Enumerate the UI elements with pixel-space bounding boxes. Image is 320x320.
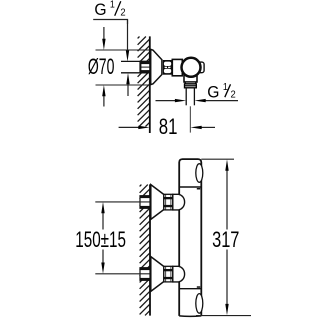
bottom cap highlight ellipse <box>196 294 203 314</box>
wall hatching (front view) <box>140 185 150 316</box>
outlet centerline extension <box>189 106 191 132</box>
dimension 81: right arrow + tail <box>200 126 215 128</box>
wall face line (top view) <box>149 36 151 133</box>
dimension 317 extension line bottom <box>196 315 251 317</box>
lower union nut <box>164 266 173 282</box>
safestop tick top <box>197 188 200 190</box>
top cap highlight ellipse <box>196 164 203 183</box>
outlet step <box>185 82 196 84</box>
valve body (circle) <box>182 58 201 77</box>
outlet pipe G1/2 <box>185 88 187 106</box>
dimension 317 line + arrows <box>226 168 228 230</box>
mixer body (front view) <box>179 159 201 316</box>
supply pipe white mask <box>121 61 150 72</box>
escutcheon (top view, side profile) <box>151 49 162 84</box>
upper escutcheon (front view) <box>151 185 164 220</box>
Ø70 arrow down <box>103 27 105 42</box>
wall hatching (top view) <box>138 37 150 127</box>
dimension 150±15 extension line top <box>95 201 149 203</box>
dimension 81: left tail + arrow to wall <box>119 126 140 128</box>
outlet dim line right + arrow (underline of G1/2) <box>204 100 238 102</box>
dimension 150±15 line + arrows <box>102 210 104 230</box>
cylinder section before valve body <box>172 59 182 75</box>
leader underline G1/2 top-left <box>93 20 127 25</box>
svg-text:317: 317 <box>212 228 239 253</box>
svg-text:Ø70: Ø70 <box>88 54 114 79</box>
upper union nut <box>164 194 173 210</box>
label G1/2 at outlet <box>207 82 236 102</box>
svg-text:G: G <box>207 83 219 101</box>
svg-text:81: 81 <box>159 115 178 140</box>
outlet dim line left + arrow <box>156 100 177 102</box>
wall face line (front view) <box>149 184 151 315</box>
svg-text:150±15: 150±15 <box>75 229 126 253</box>
top cap separation line <box>179 186 201 188</box>
svg-text:2: 2 <box>120 7 126 19</box>
safestop tick bottom <box>197 286 200 288</box>
bottom cap separation line <box>179 288 201 290</box>
dimension 317 extension line top <box>201 158 234 160</box>
outlet nut <box>185 84 197 88</box>
upper inlet boss on body <box>173 194 185 210</box>
arrow up to pipe bottom (G1/2) <box>127 81 129 96</box>
leader arrow down to pipe top (G1/2) <box>127 20 129 54</box>
dimension Ø70 extension line top <box>96 49 150 51</box>
body bottom edge <box>179 315 201 317</box>
svg-text:1: 1 <box>110 0 115 11</box>
outlet neck under valve body <box>184 70 197 82</box>
connection nipple thread (black with white grooves) <box>163 60 173 75</box>
label G1/2 top-left <box>94 0 126 19</box>
dimension Ø70 extension line bottom <box>96 84 150 86</box>
inlet thread block in wall <box>140 61 150 72</box>
upper concealed union (hex behind wall) <box>140 196 150 209</box>
lower inlet boss on body <box>173 266 185 282</box>
lower escutcheon (front view) <box>151 257 164 292</box>
knob on right of valve body <box>198 62 205 73</box>
Ø70 arrow up <box>103 93 105 107</box>
dimension 150±15 extension line bottom <box>95 273 149 275</box>
supply pipe lines G1/2 inlet <box>121 60 150 62</box>
lower concealed union (hex behind wall) <box>140 268 150 281</box>
svg-text:G: G <box>94 1 106 19</box>
svg-text:2: 2 <box>231 89 237 101</box>
